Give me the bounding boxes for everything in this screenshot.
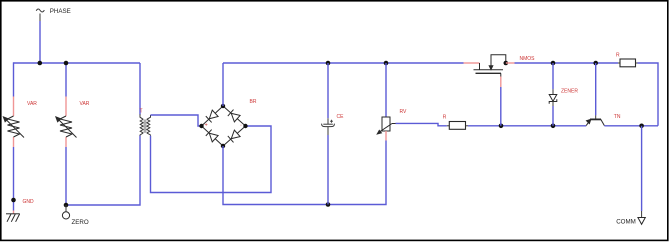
transistor TN — [586, 115, 604, 125]
svg-text:BR: BR — [250, 99, 257, 105]
wire VAR2 bottom to ZERO — [65, 147, 67, 205]
wire T primary top — [139, 63, 141, 115]
capacitor CE — [322, 118, 335, 135]
svg-text:TN: TN — [614, 114, 621, 120]
svg-text:GND: GND — [23, 199, 35, 205]
junction dot bridge right — [243, 124, 247, 128]
junction dot PHASE-bus — [38, 61, 43, 66]
svg-text:RV: RV — [400, 109, 408, 115]
svg-text:+: + — [205, 122, 208, 128]
terminal COMM — [638, 211, 645, 224]
junction dot bridge top — [221, 104, 225, 108]
svg-text:.: . — [240, 121, 242, 128]
diode BR bottom-right — [228, 130, 240, 142]
wire VAR2 top — [65, 63, 67, 97]
junction dot CE-rail — [326, 202, 331, 207]
svg-text:VAR: VAR — [80, 101, 90, 107]
resistor R2 top right — [618, 59, 638, 67]
junction dot TN-bus — [593, 61, 598, 66]
junction dot ZERO — [64, 203, 69, 208]
nmos source lead — [500, 77, 502, 88]
wire RV wiper to R — [396, 123, 447, 125]
terminal ZERO — [62, 205, 69, 219]
svg-text:NMOS: NMOS — [520, 56, 536, 62]
svg-text:R: R — [616, 53, 620, 59]
junction dot nmos-source node — [499, 124, 504, 129]
diode BR top-left — [206, 110, 218, 122]
wire PHASE vertical — [39, 21, 41, 63]
wire bridge top to dc bus — [222, 63, 224, 106]
wire T secondary bottom to bridge right — [151, 126, 272, 193]
junction dot COMM-rail — [639, 124, 644, 129]
nmos drain dot — [504, 61, 509, 66]
wire TN base top — [595, 63, 597, 115]
wire CE bottom — [327, 135, 329, 205]
wire nmos source down — [500, 87, 502, 126]
junction dot VAR2-bus — [64, 61, 69, 66]
wire phase bus left — [14, 62, 141, 64]
junction dot RV-bus — [384, 61, 389, 66]
resistor R (gate) — [447, 122, 468, 130]
diode ZENER — [549, 89, 557, 106]
wire VAR1 top — [13, 62, 15, 96]
junction dot bridge bottom — [221, 144, 225, 148]
svg-text:R: R — [443, 115, 447, 121]
junction dot zener-rail — [551, 124, 556, 129]
wire R to node — [468, 125, 586, 127]
wire ZERO rail — [66, 136, 140, 206]
varistor VAR2 — [55, 97, 77, 148]
junction dot zener-bus — [551, 61, 556, 66]
node GND dot — [11, 198, 16, 203]
svg-text:ZENER: ZENER — [561, 88, 578, 94]
wire T secondary top to bridge left — [151, 115, 202, 126]
diode BR top-right — [228, 110, 240, 122]
wire zener bottom — [552, 106, 554, 126]
nmos drain lead — [506, 62, 515, 64]
svg-text:VAR: VAR — [27, 101, 37, 107]
wire R2 to right edge down — [638, 63, 659, 126]
diode BR bottom-left — [206, 130, 218, 142]
svg-text:COMM: COMM — [616, 219, 636, 226]
potentiometer RV — [376, 117, 395, 141]
wire VAR1 bottom to GND — [13, 147, 15, 211]
svg-text:PHASE: PHASE — [50, 8, 71, 15]
wire RV top — [385, 63, 387, 117]
wire TN emitter rail — [604, 125, 658, 127]
transformer T — [140, 114, 151, 135]
wire bridge bottom rail — [223, 141, 386, 205]
terminal PHASE — [36, 9, 44, 21]
transistor NMOS — [474, 55, 506, 77]
nmos gate lead — [464, 62, 480, 64]
bridge rectifier BR — [202, 106, 246, 146]
junction dot CE-bus — [326, 61, 331, 66]
wire CE top — [327, 63, 329, 118]
svg-text:T: T — [140, 109, 143, 115]
wire nmos to R2 corner — [515, 62, 619, 64]
junction dot bridge left — [199, 124, 203, 128]
varistor VAR1 — [3, 97, 25, 148]
wire COMM down — [641, 126, 643, 211]
svg-text:ZERO: ZERO — [72, 219, 89, 226]
svg-text:CE: CE — [337, 114, 345, 120]
wire dc bus to nmos — [223, 62, 464, 64]
wire zener top — [552, 63, 554, 89]
ground symbol — [6, 211, 20, 222]
